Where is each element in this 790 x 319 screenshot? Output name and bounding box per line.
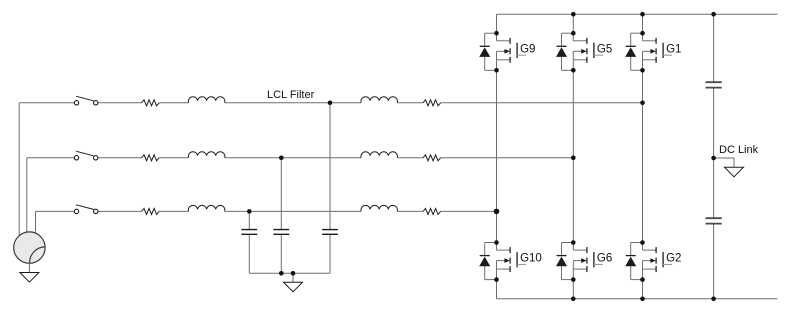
node G10 drain junction xyxy=(494,240,499,245)
node G2 drain junction xyxy=(640,240,645,245)
wire inverter leg 1 xyxy=(496,14,498,299)
inductor L2b xyxy=(361,152,397,158)
wire C3 branch xyxy=(248,211,250,273)
diode DG6 xyxy=(556,243,573,280)
svg-text:G5: G5 xyxy=(597,43,612,55)
node phase2 to leg2 xyxy=(571,156,576,161)
node G1 drain junction xyxy=(640,31,645,36)
diode DG10 xyxy=(479,243,496,280)
diode DG2 xyxy=(625,243,642,280)
node phase1 to leg3 xyxy=(640,101,645,106)
diode DG5 xyxy=(556,33,573,70)
capacitor C1 xyxy=(322,230,338,235)
transistor G1 (MOSFET) xyxy=(643,33,673,70)
inductor L1a xyxy=(188,97,224,103)
wire DC- bottom rail xyxy=(497,298,778,300)
svg-text:G10: G10 xyxy=(520,253,542,265)
label G5 xyxy=(597,43,612,55)
resistor R1a xyxy=(142,100,160,106)
svg-text:LCL Filter: LCL Filter xyxy=(267,89,315,101)
wire phase 3 line xyxy=(36,211,497,233)
switch S3 xyxy=(74,205,98,214)
node G5 source junction xyxy=(571,68,576,73)
node DC midpoint xyxy=(711,156,716,161)
switch S2 xyxy=(74,151,98,160)
svg-text:G2: G2 xyxy=(666,253,681,265)
label G1 xyxy=(666,43,681,55)
node phase3 to leg1 xyxy=(494,209,500,215)
capacitor Cdc2 (lower DC link) xyxy=(706,218,722,223)
capacitor C2 xyxy=(273,230,289,235)
node G6 drain junction xyxy=(571,240,576,245)
svg-text:G9: G9 xyxy=(520,43,535,55)
capacitor Cdc1 (upper DC link) xyxy=(706,82,722,87)
wire DC+ top rail xyxy=(497,13,778,15)
transistor G5 (MOSFET) xyxy=(573,33,603,70)
label LCL Filter xyxy=(267,89,315,101)
transistor G6 (MOSFET) xyxy=(573,243,603,280)
node G10 source junction xyxy=(494,277,499,282)
three-phase AC source G xyxy=(14,232,46,263)
wire phase 1 line xyxy=(19,103,642,236)
resistor R1b xyxy=(423,100,441,106)
node bottom rail DC link xyxy=(711,297,716,302)
node G9 drain junction xyxy=(494,31,499,36)
switch S1 xyxy=(74,96,98,105)
label G2 xyxy=(666,253,681,265)
node phase1 C1 tap xyxy=(328,101,333,106)
inductor L2a xyxy=(188,152,224,158)
node top rail leg3 xyxy=(640,12,645,17)
node bottom rail leg3 xyxy=(640,297,645,302)
node top rail DC link xyxy=(711,12,716,17)
inductor L3b xyxy=(361,205,397,211)
node C2-bus junction xyxy=(279,271,284,276)
diode DG9 xyxy=(479,33,496,70)
label G10 xyxy=(520,253,542,265)
wire C1 branch xyxy=(329,103,331,273)
ground filter neutral xyxy=(284,282,303,292)
svg-text:G6: G6 xyxy=(597,253,612,265)
resistor R3b xyxy=(423,208,441,214)
label G9 xyxy=(520,43,535,55)
wire C2 branch xyxy=(280,158,282,273)
wire inverter leg 2 xyxy=(572,14,574,299)
wire filter ground bus xyxy=(249,273,330,282)
inductor L1b xyxy=(361,97,397,103)
node phase3 C3 tap xyxy=(247,209,252,214)
node G2 source junction xyxy=(640,277,645,282)
node bottom rail leg2 xyxy=(571,297,576,302)
wire DC midpoint to ground xyxy=(714,158,734,167)
resistor R2a xyxy=(142,155,160,161)
svg-text:DC Link: DC Link xyxy=(719,144,759,156)
ground source xyxy=(20,273,39,283)
transistor G10 (MOSFET) xyxy=(497,243,527,280)
wire DC link branch xyxy=(713,14,715,299)
node ground-bus junction xyxy=(291,271,296,276)
node phase2 C2 tap xyxy=(279,156,284,161)
diode DG1 xyxy=(625,33,642,70)
capacitor C3 xyxy=(241,230,257,235)
wire inverter leg 3 xyxy=(642,14,644,299)
node G1 source junction xyxy=(640,68,645,73)
node top rail leg2 xyxy=(571,12,576,17)
node G9 source junction xyxy=(494,68,499,73)
wire phase 2 line xyxy=(27,158,574,232)
ground DC midpoint xyxy=(725,167,744,177)
svg-text:G1: G1 xyxy=(666,43,681,55)
node G6 source junction xyxy=(571,277,576,282)
transistor G2 (MOSFET) xyxy=(643,243,673,280)
label G6 xyxy=(597,253,612,265)
wire source to ground xyxy=(28,263,30,272)
label DC Link xyxy=(719,144,759,156)
transistor G9 (MOSFET) xyxy=(497,33,527,70)
resistor R2b xyxy=(423,155,441,161)
node G5 drain junction xyxy=(571,31,576,36)
inductor L3a xyxy=(188,205,224,211)
resistor R3a xyxy=(142,208,160,214)
